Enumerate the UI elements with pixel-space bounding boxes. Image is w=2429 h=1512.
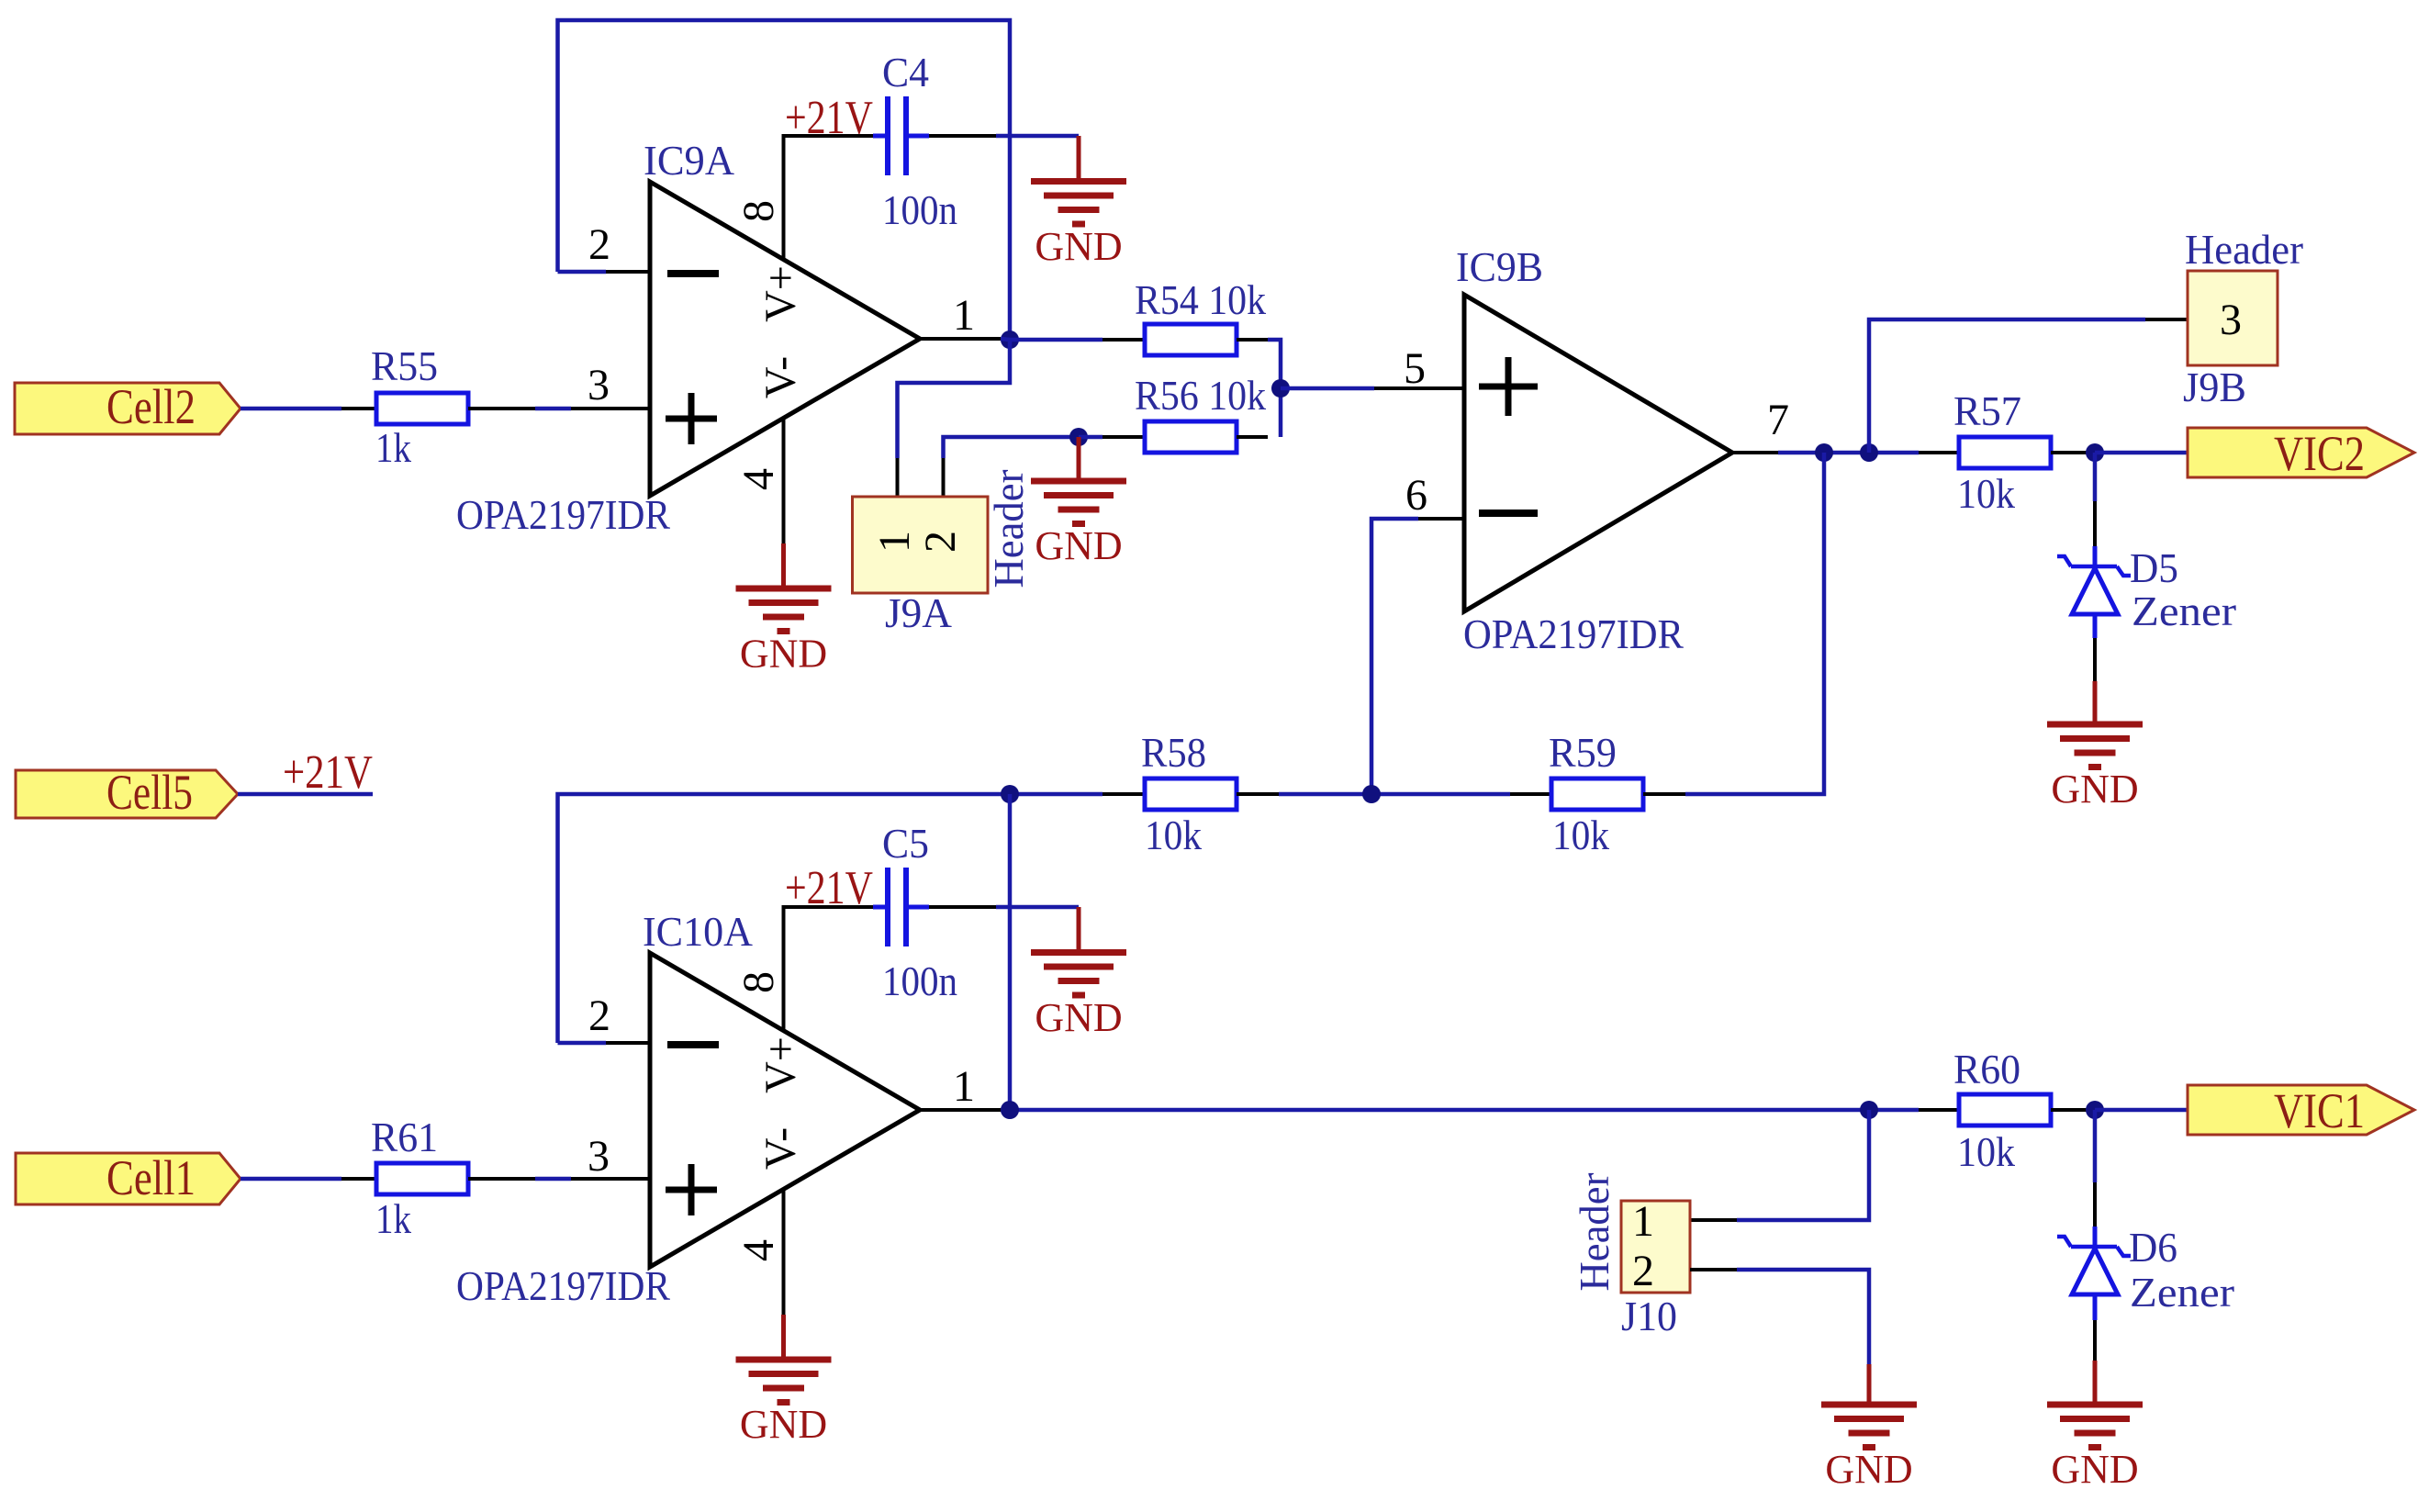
svg-text:C4: C4 <box>882 49 929 95</box>
ground under J10 <box>1821 1364 1917 1448</box>
svg-text:2: 2 <box>1632 1247 1654 1295</box>
svg-text:5: 5 <box>1404 344 1426 393</box>
svg-text:GND: GND <box>1035 995 1122 1040</box>
svg-text:D5: D5 <box>2130 544 2178 591</box>
ground under R56 junction <box>1031 437 1126 524</box>
svg-text:D6: D6 <box>2129 1224 2177 1271</box>
ground right of C5 <box>1031 907 1126 995</box>
ground under pin4 IC10A <box>736 1315 832 1403</box>
svg-text:Cell1: Cell1 <box>106 1150 196 1205</box>
svg-text:4: 4 <box>734 1239 783 1261</box>
op-amp IC9A <box>650 182 920 496</box>
ground under pin4 IC9A <box>736 543 832 632</box>
connector J9B header pin3 <box>2188 271 2278 365</box>
wire Cell1 to R61 <box>241 1177 341 1182</box>
svg-text:GND: GND <box>2051 767 2138 812</box>
wire pin1 IC9A to node <box>920 337 1001 341</box>
svg-text:10k: 10k <box>1552 812 1609 858</box>
wire R61 to pin3 IC10A <box>468 1177 535 1181</box>
svg-text:10k: 10k <box>1957 470 2015 517</box>
svg-text:Header: Header <box>985 470 1032 588</box>
svg-text:8: 8 <box>734 971 783 993</box>
svg-text:GND: GND <box>2051 1447 2138 1492</box>
wire up to J9B <box>1869 319 2145 453</box>
svg-text:J9B: J9B <box>2183 364 2246 410</box>
resistor R60 10k <box>1959 1094 2051 1126</box>
node mid fb junction <box>1001 785 1019 803</box>
svg-text:1: 1 <box>953 291 975 340</box>
wire pin8 stub + rail +21V C4 <box>784 136 874 258</box>
svg-text:Zener: Zener <box>2132 588 2236 634</box>
flag Cell2 <box>15 383 241 434</box>
svg-text:1: 1 <box>870 531 919 553</box>
connector J9A header <box>853 497 989 593</box>
flag Cell1 <box>16 1153 241 1204</box>
wire node down-jog to J9A pin1 <box>898 340 1011 458</box>
resistor R57 10k <box>1959 437 2051 468</box>
svg-text:10k: 10k <box>1145 812 1202 858</box>
svg-text:+21V: +21V <box>283 746 373 799</box>
wire pin8 stub + rail +21V C5 <box>784 907 874 1029</box>
svg-text:R55: R55 <box>371 342 438 389</box>
svg-text:2: 2 <box>588 220 610 269</box>
svg-text:3: 3 <box>2220 296 2242 344</box>
flag Cell5 <box>16 770 238 818</box>
svg-text:R61: R61 <box>371 1114 438 1160</box>
svg-text:C5: C5 <box>882 820 929 867</box>
svg-text:OPA2197IDR: OPA2197IDR <box>456 491 670 538</box>
svg-text:IC10A: IC10A <box>643 908 753 955</box>
svg-text:V-: V- <box>756 1127 805 1170</box>
svg-text:2: 2 <box>916 531 965 553</box>
svg-text:V+: V+ <box>756 265 805 322</box>
svg-text:7: 7 <box>1767 396 1789 444</box>
svg-text:GND: GND <box>1825 1447 1912 1492</box>
svg-text:Header: Header <box>2185 226 2303 273</box>
svg-text:6: 6 <box>1405 471 1427 520</box>
svg-text:OPA2197IDR: OPA2197IDR <box>1463 610 1684 657</box>
resistor R54 10k <box>1145 324 1237 355</box>
svg-text:V-: V- <box>756 356 805 398</box>
node J10 junction <box>1860 1101 1878 1119</box>
svg-text:1: 1 <box>1632 1197 1654 1246</box>
wire Cell5 +21V <box>238 792 373 797</box>
ground under D5 <box>2047 681 2143 767</box>
wire pin2 stub IC9A <box>558 270 607 274</box>
wire R59 right up to pin7 node <box>1685 453 1824 794</box>
svg-text:Cell5: Cell5 <box>106 765 193 820</box>
ground top right of C4 <box>1031 136 1126 224</box>
diode D5 Zener <box>2093 453 2098 501</box>
wire pin1 IC10A long output <box>920 1108 1001 1112</box>
svg-text:GND: GND <box>1035 224 1122 269</box>
node pin7 R59 junction <box>1815 443 1833 462</box>
node mid pin6 junction <box>1362 785 1381 803</box>
svg-text:R54 10k: R54 10k <box>1135 276 1266 323</box>
svg-text:+21V: +21V <box>785 862 873 914</box>
connector J10 header <box>1621 1201 1690 1293</box>
wire mid line fb IC10A left <box>558 794 1103 1043</box>
node R54/R56 junction <box>1271 379 1290 398</box>
wire R55 to pin3 <box>468 407 535 410</box>
node pin1 IC10A junction <box>1001 1101 1019 1119</box>
resistor R58 10k <box>1103 792 1145 796</box>
svg-text:1k: 1k <box>375 424 411 471</box>
svg-text:3: 3 <box>588 361 610 409</box>
svg-text:4: 4 <box>734 468 783 490</box>
wire pin6 IC9B down to mid line <box>1418 517 1464 521</box>
wire node down to pin1 IC10A <box>1008 794 1013 1110</box>
svg-text:3: 3 <box>588 1132 610 1181</box>
svg-text:8: 8 <box>734 200 783 222</box>
svg-text:+21V: +21V <box>785 92 873 144</box>
svg-text:1k: 1k <box>375 1195 411 1242</box>
svg-text:Cell2: Cell2 <box>106 379 196 434</box>
op-amp IC10A <box>650 953 920 1267</box>
svg-text:IC9B: IC9B <box>1456 243 1543 290</box>
svg-text:R56 10k: R56 10k <box>1135 372 1266 419</box>
node R60 D6 junction <box>2086 1101 2104 1119</box>
node A pin1 IC9A junction <box>1001 330 1019 349</box>
svg-text:100n: 100n <box>882 186 957 233</box>
svg-text:Zener: Zener <box>2130 1269 2234 1316</box>
wire R54 right bend down <box>1237 338 1268 342</box>
svg-text:R58: R58 <box>1141 729 1206 776</box>
resistor R61 1k <box>376 1163 468 1194</box>
resistor R59 10k <box>1510 792 1551 796</box>
wire pin2 stub IC10A <box>558 1041 607 1046</box>
resistor R55 1k <box>376 393 468 424</box>
svg-text:J9A: J9A <box>885 589 952 636</box>
wire into R57 <box>1919 451 1959 454</box>
wire pin4 stub IC10A <box>782 1191 786 1315</box>
svg-text:GND: GND <box>740 632 827 677</box>
svg-text:Header: Header <box>1571 1173 1617 1292</box>
flag VIC2 <box>2188 428 2414 477</box>
node pin7 J9B junction <box>1860 443 1878 462</box>
wire Cell2 to R55 <box>241 407 341 411</box>
svg-text:IC9A: IC9A <box>644 137 734 184</box>
diode D6 Zener <box>2093 1110 2098 1182</box>
svg-text:R59: R59 <box>1549 729 1617 776</box>
svg-text:100n: 100n <box>882 958 957 1004</box>
wire node to R54 <box>1010 338 1103 342</box>
wire pin4 stub IC9A <box>782 420 786 543</box>
wire J9A pin2 to R56 junction <box>942 458 946 498</box>
flag VIC1 <box>2188 1085 2414 1135</box>
capacitor C5 100n <box>885 868 890 946</box>
wire into R60 <box>1919 1108 1959 1112</box>
svg-text:VIC2: VIC2 <box>2274 426 2365 481</box>
svg-text:GND: GND <box>1035 523 1122 568</box>
capacitor C4 100n <box>885 96 890 175</box>
node R56 left junction <box>1069 428 1088 446</box>
op-amp IC9B <box>1464 295 1732 611</box>
svg-text:1: 1 <box>953 1062 975 1111</box>
svg-text:J10: J10 <box>1621 1293 1677 1339</box>
svg-text:VIC1: VIC1 <box>2274 1083 2365 1138</box>
svg-text:V+: V+ <box>756 1036 805 1093</box>
ground under D6 <box>2047 1361 2143 1448</box>
svg-text:2: 2 <box>588 991 610 1040</box>
node R57 D5 junction <box>2086 443 2104 462</box>
resistor R56 10k <box>1145 421 1237 453</box>
wire J10 pin2 to GND <box>1690 1268 1737 1271</box>
svg-text:OPA2197IDR: OPA2197IDR <box>456 1262 670 1309</box>
svg-text:10k: 10k <box>1957 1128 2015 1175</box>
wire junction to pin5 IC9B <box>1281 386 1374 391</box>
svg-text:R57: R57 <box>1953 387 2021 434</box>
svg-text:R60: R60 <box>1953 1046 2020 1092</box>
wire feedback IC9A top loop <box>558 20 1011 340</box>
wire pin7 IC9B output <box>1732 451 1778 454</box>
svg-text:GND: GND <box>740 1402 827 1447</box>
wire J10 drop <box>1737 1110 1869 1220</box>
